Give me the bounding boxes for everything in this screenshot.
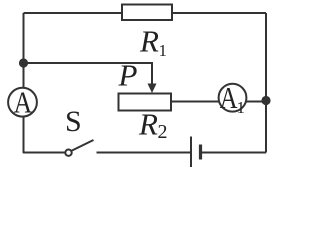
svg-text:A: A bbox=[220, 80, 238, 115]
svg-text:R: R bbox=[139, 24, 159, 59]
svg-text:1: 1 bbox=[159, 41, 168, 60]
svg-text:P: P bbox=[118, 58, 138, 93]
svg-text:2: 2 bbox=[158, 121, 168, 143]
svg-text:R: R bbox=[138, 107, 158, 142]
svg-text:S: S bbox=[65, 105, 82, 138]
svg-text:1: 1 bbox=[237, 98, 246, 117]
svg-text:A: A bbox=[14, 84, 33, 119]
